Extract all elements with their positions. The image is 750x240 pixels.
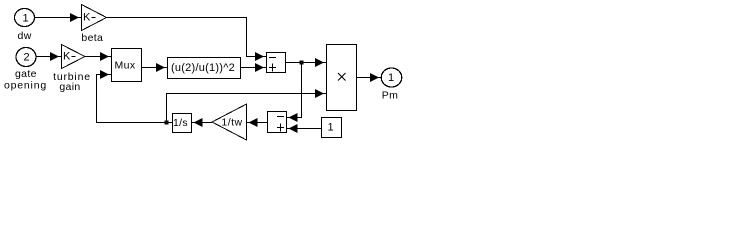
svg-text:K: K	[63, 51, 71, 63]
svg-text:beta: beta	[81, 32, 103, 44]
svg-text:gain: gain	[59, 81, 80, 93]
svg-text:1: 1	[22, 13, 28, 25]
svg-text:1: 1	[388, 72, 394, 84]
svg-text:1/tw: 1/tw	[221, 117, 242, 129]
svg-text:dw: dw	[18, 30, 32, 42]
svg-text:1/s: 1/s	[173, 117, 188, 129]
svg-text:1: 1	[327, 122, 333, 134]
svg-text:opening: opening	[4, 80, 47, 92]
svg-text:2: 2	[23, 52, 29, 64]
svg-text:gate: gate	[15, 68, 37, 80]
svg-text:Pm: Pm	[382, 90, 398, 102]
svg-text:K: K	[83, 12, 91, 24]
svg-text:(u(2)/u(1))^2: (u(2)/u(1))^2	[171, 62, 235, 74]
svg-text:Mux: Mux	[115, 60, 136, 72]
